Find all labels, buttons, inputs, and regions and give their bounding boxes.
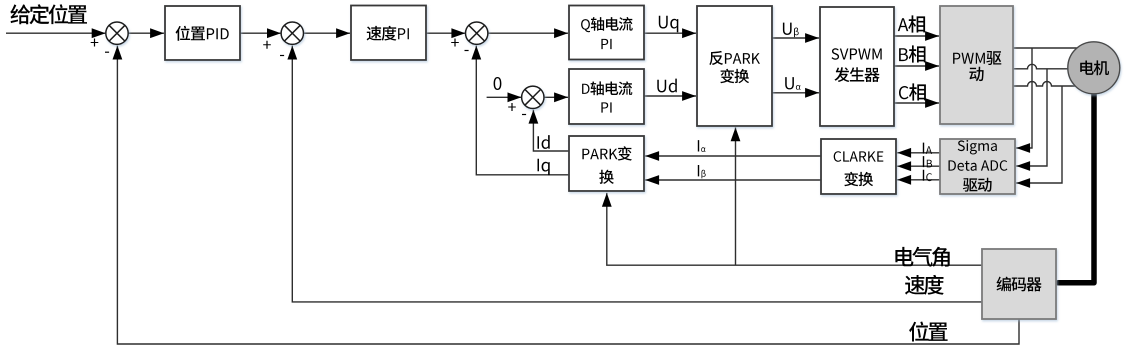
label 电气角 (electrical angle) — [895, 247, 949, 267]
wire: Iq feedback PARK to J3 — [476, 46, 569, 175]
wire: motor phase A — [1013, 47, 1085, 49]
label 速度 (speed) — [905, 275, 944, 295]
wire: 速度 feedback encoder to J2 — [292, 46, 982, 302]
block 电机 (motor) — [1068, 42, 1120, 94]
label IC current C — [923, 170, 932, 181]
block 速度PI (speed PI) — [351, 6, 426, 61]
wire: B相 SVPWM to PWM驱动 — [894, 65, 939, 67]
minus sign at J1 — [105, 52, 109, 53]
label Iq — [538, 159, 550, 175]
wire: 速度PI to J3 — [426, 32, 465, 34]
label B相 (phase B) — [899, 45, 925, 62]
text 电机 motor — [1080, 60, 1109, 75]
label A相 (phase A) — [898, 15, 925, 32]
wire: J2 to 速度PI — [304, 32, 350, 34]
plus sign at J1 — [91, 39, 99, 47]
wire: Ialpha CLARKE to PARK — [645, 155, 821, 157]
wire: IC Sigma ADC to CLARKE — [897, 179, 940, 181]
label IB current B — [923, 156, 932, 167]
text 位置PID — [176, 26, 229, 41]
label IA current A — [923, 143, 932, 154]
block D轴电流PI (D-axis current PI) — [569, 69, 644, 124]
wire: zero reference input — [487, 96, 522, 98]
minus sign at J2 — [280, 55, 284, 56]
text PWM驱 line1 — [953, 51, 1001, 65]
wire: 位置PID to J2 — [240, 32, 281, 34]
wire: A相 SVPWM to PWM驱动 — [894, 35, 939, 37]
block SVPWM发生器 (SVPWM generator) — [820, 7, 894, 126]
label 位置 (position) — [909, 322, 948, 342]
plus sign at J2 — [263, 41, 271, 49]
label 0 (zero reference) — [494, 77, 502, 90]
wire: motor phase C with hops — [1013, 82, 1080, 87]
plus sign at J3 — [451, 39, 459, 47]
text 发生器 line2 — [834, 67, 879, 82]
label C相 (phase C) — [899, 83, 926, 100]
block 位置PID (position PID) — [165, 6, 240, 60]
wire: Ualpha 反PARK to SVPWM — [772, 92, 819, 94]
wire: 给定位置 setpoint input — [6, 32, 106, 34]
text CLARKE line1 — [834, 151, 884, 162]
block Q轴电流PI (Q-axis current PI) — [569, 6, 644, 60]
wire: Ibeta CLARKE to PARK — [645, 179, 821, 181]
text 动 line2 — [969, 67, 983, 81]
label Ud — [657, 79, 677, 93]
wire: phase B current tap to Sigma ADC — [1016, 69, 1047, 166]
wire: motor phase B with hop — [1013, 64, 1072, 69]
label Id — [538, 135, 550, 149]
block 反PARK变换 (inverse Park transform) — [697, 6, 772, 126]
text Deta ADC line2 — [949, 160, 1008, 171]
text Sigma line1 — [958, 140, 997, 154]
label 给定位置 (setpoint position) — [10, 4, 87, 24]
wire: Uq output Q轴电流PI to 反PARK — [644, 32, 696, 34]
label Ialpha — [698, 140, 706, 152]
wire: 电气角 encoder to PARK — [607, 193, 982, 265]
label Ubeta — [783, 23, 799, 37]
block CLARKE变换 (Clarke transform) — [821, 139, 896, 194]
label Ibeta — [698, 165, 706, 178]
text SVPWM line1 — [832, 48, 882, 59]
wire: phase A current tap to Sigma ADC — [1016, 48, 1032, 148]
wire: motor shaft to encoder (thick) — [1058, 90, 1094, 283]
text 驱动 line3 — [963, 178, 992, 192]
plus sign at J4 — [508, 103, 516, 111]
label Ualpha — [785, 77, 801, 90]
summing junction J3 (Iq error) — [466, 22, 488, 44]
text 换 line2 of PARK block — [599, 170, 614, 184]
text 编码器 encoder — [997, 277, 1042, 292]
wire: Ud output D轴电流PI to 反PARK — [644, 95, 696, 97]
block 编码器 (encoder) — [982, 249, 1056, 319]
wire: J4 to D轴电流PI — [544, 96, 568, 98]
summing junction J1 (position error) — [106, 22, 128, 44]
text 反PARK line1 — [709, 51, 760, 65]
text 变换 line2 of 反PARK block — [720, 69, 749, 83]
minus sign at J4 — [522, 114, 526, 115]
wire: IB Sigma ADC to CLARKE — [897, 165, 940, 167]
summing junction J4 (Id error) — [522, 86, 544, 108]
minus sign at J3 — [465, 50, 469, 51]
wire: J1 to 位置PID — [128, 32, 164, 34]
wire: Id feedback PARK to J4 — [533, 110, 569, 151]
summing junction J2 (speed error) — [281, 22, 303, 44]
wire: J3 to Q轴电流PI — [488, 32, 568, 34]
wire: 位置 feedback encoder to J1 — [117, 46, 1019, 344]
block PWM驱动 (PWM driver) — [940, 6, 1013, 124]
wire: phase C current tap to Sigma ADC — [1016, 86, 1062, 183]
block Sigma Deta ADC 驱动 (sigma-delta ADC driver) — [940, 139, 1015, 194]
wire: Ubeta 反PARK to SVPWM — [772, 37, 819, 39]
wire: 电气角 branch to 反PARK — [735, 127, 737, 265]
wire: C相 SVPWM to PWM驱动 — [894, 102, 939, 104]
text Q轴电流 line1 — [581, 17, 633, 32]
text 变换 line2 of CLARKE block — [844, 172, 873, 186]
text PI line2 of D block — [601, 102, 611, 112]
block PARK变换 (Park transform) — [569, 136, 644, 191]
text 速度PI — [367, 26, 409, 41]
text D轴电流 line1 — [582, 81, 632, 95]
label Uq — [659, 16, 679, 32]
text PARK变 line1 — [582, 146, 631, 160]
text PI line2 of Q block — [601, 39, 611, 49]
wire: IA Sigma ADC to CLARKE — [897, 152, 940, 154]
